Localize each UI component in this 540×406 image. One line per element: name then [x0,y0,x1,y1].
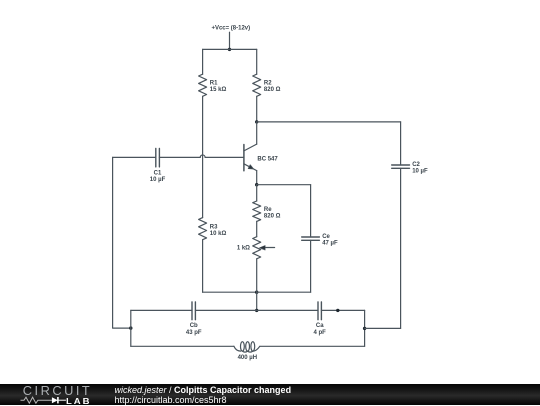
capacitor C1 [113,148,160,167]
wire R3 bottom to corner [202,240,204,293]
resistor R1 [199,74,207,96]
svg-text:10 µF: 10 µF [412,169,428,175]
wire Cb-Ca rail left segment [131,309,192,311]
wire emitter rail to Ce column [257,184,311,186]
inductor L1 [234,342,260,352]
wire R2 top lead [256,49,258,74]
svg-text:C1: C1 [154,171,162,177]
wire emitter to Re [256,185,258,201]
svg-text:820 Ω: 820 Ω [264,213,281,219]
node right rect junction [363,327,366,330]
node pot bottom junction [255,291,258,294]
capacitor Cb [192,302,195,320]
node left rect junction [129,326,132,329]
wire Cb-Ca rail middle segment [195,309,318,311]
capacitor C2 [392,122,410,329]
resistor R2 [253,74,261,96]
svg-text:4 pF: 4 pF [314,330,327,336]
wire R1 bottom to R3 [202,96,204,217]
label C2 10 µF [412,162,428,175]
label Ca 4 pF [314,323,327,336]
svg-text:C2: C2 [412,162,420,168]
label Cb 43 pF [186,323,202,336]
svg-text:Ca: Ca [316,323,324,329]
wire R1 top lead [202,49,204,74]
wire R2 bottom to collector node [256,96,258,122]
svg-text:BC 547: BC 547 [257,156,278,162]
wire top rail [203,48,257,50]
footer title line [115,385,292,395]
svg-text:Re: Re [264,207,272,213]
label R2 820 Ω [264,80,281,93]
wire base wire from C1 to hop [159,156,200,158]
logo symbol zigzag and diode [20,396,70,405]
node Vcc junction [228,48,231,51]
wire C2 column to rect [365,327,401,329]
svg-text:10 µF: 10 µF [150,177,166,183]
label Re 820 Ω [264,207,281,220]
wire rect right side [364,310,366,346]
node emitter junction [255,183,258,186]
resistor R3 [199,218,207,240]
svg-text:R3: R3 [210,224,218,230]
power label +Vcc [211,26,250,32]
wire bottom rail R3 to pot [203,291,257,293]
wire pot bottom lead [256,259,258,292]
svg-text:10 kΩ: 10 kΩ [210,231,227,237]
node collector junction [255,120,258,123]
footer bar [0,384,540,405]
label 400 µH [238,355,257,361]
label R3 10 kΩ [210,224,227,237]
wire bottom rail pot to Ce [257,291,311,293]
svg-text:R1: R1 [210,80,218,86]
svg-text:43 pF: 43 pF [186,330,202,336]
svg-text:820 Ω: 820 Ω [264,87,281,93]
wire Re to pot [256,221,258,236]
svg-text:R2: R2 [264,80,272,86]
svg-text:Cb: Cb [190,323,198,329]
capacitor Ca [318,302,321,320]
logo CIRCUIT [23,383,92,398]
label 1 kΩ [237,246,250,252]
svg-text:47 µF: 47 µF [322,241,338,247]
node dot right of Ca [336,309,339,312]
wire collector down to transistor [256,122,258,144]
wire rect left side [130,310,132,346]
label Ce 47 µF [322,234,338,247]
wire Vcc stub [229,32,231,49]
label R1 15 kΩ [210,80,227,93]
svg-text:400 µH: 400 µH [238,355,257,361]
wire Cb-Ca rail right segment [321,309,364,311]
label BC 547 [257,156,278,162]
svg-text:+Vcc= (8-12v): +Vcc= (8-12v) [211,26,250,32]
potentiometer 1 kΩ [253,237,275,259]
wire hop arc over R column [200,155,205,157]
wire bottom rail right segment [260,345,365,347]
capacitor Ce [302,185,320,293]
resistor Re [253,201,261,221]
logo LAB [66,396,91,406]
svg-text:1 kΩ: 1 kΩ [237,246,250,252]
node dot on Cb-Ca rail [255,309,258,312]
wire pot node down to Cb-Ca rail [256,292,258,310]
transistor Q1 BC 547 [244,144,257,185]
wire bottom rail left segment [131,345,234,347]
svg-text:Ce: Ce [322,234,330,240]
svg-text:15 kΩ: 15 kΩ [210,87,227,93]
wire base wire hop to transistor [205,156,244,158]
footer url line [115,395,227,405]
wire collector rail to C2 column [257,121,401,123]
label C1 10 µF [150,171,166,184]
wire left outer column [113,157,131,328]
